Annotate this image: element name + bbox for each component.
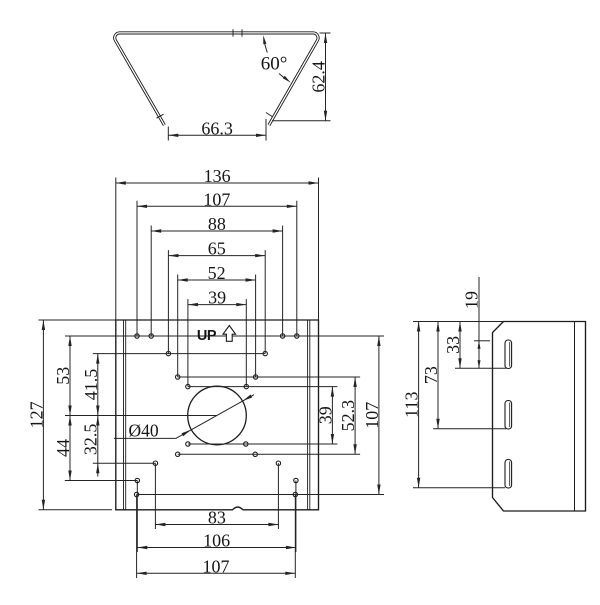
hole row E right	[244, 442, 248, 446]
row C hole line	[178, 376, 360, 378]
svg-text:Ø40: Ø40	[129, 421, 159, 441]
svg-text:107: 107	[362, 402, 382, 429]
svg-text:39: 39	[208, 288, 226, 308]
dimension 136 (top chain)	[116, 166, 319, 320]
svg-text:107: 107	[202, 556, 229, 576]
svg-text:66.3: 66.3	[201, 118, 233, 138]
row B hole line	[93, 353, 265, 355]
dimension 62.4 (top view height)	[272, 33, 331, 121]
hole row B right	[263, 351, 267, 355]
UP text with up arrow symbol	[197, 326, 236, 345]
svg-text:136: 136	[204, 166, 231, 186]
hole row G left	[153, 461, 157, 465]
dimension 41.5 (left)	[81, 354, 101, 416]
row F hole line	[178, 453, 360, 455]
mounting plate outline (front view)	[116, 320, 319, 510]
dimension 73 (side view)	[421, 322, 506, 429]
dimension 127 (plate height)	[26, 320, 115, 510]
dimension 107 (top chain)	[137, 189, 297, 336]
svg-text:53: 53	[53, 367, 73, 385]
svg-text:60°: 60°	[261, 53, 288, 74]
row H hole line	[65, 480, 138, 482]
dimension 83 (bottom)	[155, 463, 278, 529]
bent clamp profile (top view)	[115, 33, 318, 125]
hole row C right	[253, 375, 257, 379]
svg-text:32.5: 32.5	[80, 424, 100, 456]
right fold line	[308, 320, 310, 510]
notch tick marks on clamp top bar	[233, 29, 242, 36]
hole row D right	[244, 384, 248, 388]
dimension 53 (left)	[53, 336, 73, 416]
hole row F left	[176, 452, 180, 456]
svg-text:52.3: 52.3	[338, 400, 358, 432]
diameter 40 leader and label	[114, 395, 254, 441]
dimension 107 (bottom)	[137, 495, 296, 579]
dimension 33 (side view)	[443, 322, 506, 369]
left fold line	[124, 320, 126, 510]
hole row A inner-right	[280, 334, 284, 338]
svg-text:127: 127	[26, 401, 46, 428]
dimension 19 (side view slot)	[462, 277, 491, 368]
svg-text:83: 83	[208, 508, 226, 528]
svg-text:19: 19	[462, 291, 482, 309]
dimension 113 (side view)	[402, 322, 505, 488]
dimension 66.3 (top view leg span)	[168, 118, 266, 140]
hole row F right	[253, 452, 257, 456]
dimension 106 (bottom)	[137, 481, 296, 553]
dimension 44 (left)	[53, 416, 73, 481]
hole row A outer-left	[135, 334, 139, 338]
svg-text:73: 73	[421, 366, 441, 384]
side view outline	[493, 322, 586, 512]
left leg end tick	[157, 114, 164, 118]
side view slot 3	[505, 460, 512, 489]
svg-text:62.4: 62.4	[309, 61, 329, 93]
svg-text:106: 106	[203, 531, 230, 551]
dimension 65 (top chain)	[168, 239, 265, 354]
svg-text:88: 88	[208, 214, 226, 234]
side view slot 2	[505, 401, 512, 430]
row D hole line	[188, 386, 338, 388]
svg-text:52: 52	[208, 263, 226, 283]
dimension 39 (top chain)	[188, 288, 246, 387]
row G hole line	[93, 462, 156, 464]
svg-text:44: 44	[53, 439, 73, 457]
dimension 52 (top chain)	[178, 263, 256, 377]
hole row H right	[294, 478, 298, 482]
svg-text:41.5: 41.5	[81, 369, 101, 401]
dimension 107 (right side)	[362, 336, 382, 495]
dimension 32.5 (left, outside arrow)	[80, 416, 100, 477]
svg-text:113: 113	[402, 391, 422, 417]
hole row A outer-right	[295, 334, 299, 338]
row A hole line	[65, 335, 384, 337]
svg-text:33: 33	[443, 336, 463, 354]
row E hole line	[188, 443, 338, 445]
svg-text:107: 107	[203, 189, 230, 209]
hole row A inner-left	[149, 334, 153, 338]
dimension 39 (right side)	[315, 387, 335, 444]
side view slot 1	[505, 340, 512, 369]
hole row H left	[135, 478, 139, 482]
dimension 88 (top chain)	[151, 214, 282, 336]
hole row C left	[176, 375, 180, 379]
svg-text:39: 39	[315, 406, 335, 424]
dimension 52.3 (right side)	[338, 377, 358, 454]
60 degree angle label with leader arrows	[261, 35, 291, 82]
hole row G right	[276, 461, 280, 465]
svg-text:65: 65	[208, 239, 226, 259]
center line through circle	[65, 415, 217, 417]
hole row E left	[186, 442, 190, 446]
hole row I right	[293, 492, 297, 496]
center hole circle (diam 40)	[188, 386, 247, 445]
svg-text:UP: UP	[197, 328, 217, 344]
right leg end tick	[266, 113, 272, 117]
side view inner edge line	[574, 322, 576, 512]
hole row I left	[134, 492, 138, 496]
hole row B left	[166, 351, 170, 355]
row I hole line	[137, 494, 384, 496]
hole row D left	[186, 384, 190, 388]
